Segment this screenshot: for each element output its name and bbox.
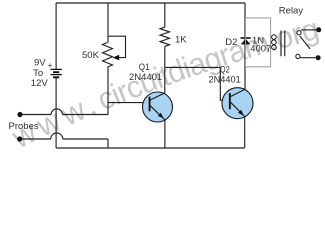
wire bottom probe horizontal [20, 138, 51, 140]
probe terminal dot bottom [17, 136, 22, 141]
wire top probe horizontal [20, 114, 51, 116]
svg-text:+: + [48, 60, 53, 70]
relay contact pivot bottom [296, 54, 300, 58]
svg-text:D2: D2 [225, 37, 237, 48]
wire top rail [56, 2, 245, 4]
wire pot branch from top rail [107, 3, 109, 43]
relay contact terminal dot top [316, 27, 321, 32]
wire battery top lead [55, 3, 57, 69]
relay contact wire top [301, 29, 317, 31]
relay coil loops [272, 35, 277, 50]
svg-text:12V: 12V [31, 78, 49, 89]
relay contact terminal dot bottom [316, 55, 321, 60]
diode D2 [241, 38, 251, 44]
transistor Q2 [222, 88, 253, 119]
relay switch blade [300, 36, 310, 49]
relay body box [246, 18, 271, 67]
wire bottom probe down to rail [107, 139, 109, 148]
wire pot top to wiper loop [108, 36, 126, 57]
svg-text:50K: 50K [82, 50, 100, 61]
svg-text:Probes: Probes [9, 121, 39, 132]
wire bottom probe after hump [63, 138, 108, 140]
svg-text:2N4401: 2N4401 [209, 74, 241, 85]
relay contact wire bottom [300, 57, 316, 59]
wire jump hump bottom probe [51, 133, 63, 139]
wire top probe after hump [62, 114, 108, 116]
wire 1K bottom to Q1 collector [164, 46, 166, 93]
svg-text:2N4401: 2N4401 [129, 72, 162, 83]
svg-text:1K: 1K [175, 35, 187, 46]
wire bottom rail [56, 147, 245, 149]
svg-text:Relay: Relay [279, 6, 304, 17]
wire Q1 base [108, 102, 149, 104]
wire 1K top lead [164, 3, 166, 27]
wire Q1 emitter to rail [164, 120, 166, 148]
transistor Q1 [143, 92, 173, 122]
wire relay/diode vertical (Q2 collector to top rail) [244, 3, 246, 89]
probe terminal dot top [17, 112, 22, 117]
svg-text:4007: 4007 [250, 44, 271, 55]
wire battery bottom lead [55, 78, 57, 149]
relay contact pivot top [297, 31, 301, 35]
relay core lines [281, 31, 285, 57]
potentiometer R1 50K zigzag [103, 43, 113, 68]
resistor R2 1K zigzag [160, 27, 169, 46]
battery BT1 plates [51, 69, 62, 77]
wire jump hump top probe [51, 109, 62, 115]
potentiometer wiper arrow [113, 55, 120, 61]
wire Q2 emitter to rail [244, 117, 246, 148]
wire branch Q1 collector to Q2 base [165, 67, 229, 100]
wire pot bottom / node A vertical [107, 67, 109, 115]
